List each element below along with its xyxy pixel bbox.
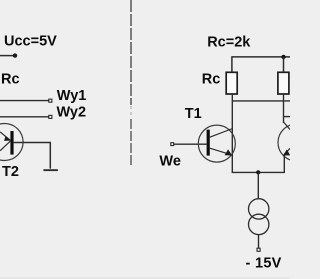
transistor T2 (PNP, mirrored, cut off at left edge) (0, 124, 23, 161)
node Ucc (filled dot) (13, 53, 17, 57)
node -15V terminal (257, 248, 260, 251)
wire T1 collector vertical (resistor bottom to emitter rail) (231, 94, 233, 172)
scan edge shading bottom (0, 277, 290, 279)
wire We to T1 base (174, 143, 207, 145)
wire right collector to Wy2 (284, 116, 291, 118)
svg-text:Wy1: Wy1 (57, 88, 87, 104)
current source I (two overlapping circles) (249, 199, 269, 235)
transistor T1 (NPN) (198, 125, 235, 162)
svg-text:T2: T2 (2, 164, 19, 180)
wire current source to -15V terminal (258, 235, 260, 249)
resistor Rc left (226, 72, 237, 94)
wire right resistor top lead (283, 57, 285, 72)
node Wy1 terminal (49, 99, 52, 102)
wire collector rail to Wy1 (232, 100, 290, 102)
svg-text:We: We (159, 153, 181, 169)
wire right collector vertical (283, 94, 285, 123)
svg-text:Rc: Rc (1, 72, 20, 88)
resistor Rc right (278, 72, 289, 94)
wire Wy1 (0, 100, 49, 102)
wire right emitter vertical (283, 156, 285, 173)
node We terminal (171, 143, 174, 146)
wire emitter rail (232, 171, 285, 173)
node top rail junction (dot) (281, 55, 285, 59)
ground (43, 169, 58, 171)
node Wy2 terminal (49, 115, 52, 118)
transistor T2-right (cut off at right edge) (278, 122, 315, 161)
wire top supply rail (232, 56, 290, 58)
svg-text:Rc=2k: Rc=2k (207, 35, 251, 51)
svg-text:Ucc=5V: Ucc=5V (4, 33, 57, 49)
svg-text:Rc: Rc (202, 72, 221, 88)
divider dashed fold line (130, 0, 132, 167)
svg-text:T1: T1 (185, 106, 202, 122)
svg-text:Wy2: Wy2 (57, 105, 87, 121)
wire T2 base to ground (14, 143, 51, 169)
wire Wy2 (0, 116, 49, 118)
wire left resistor top lead (231, 56, 233, 72)
wire Ucc supply stub (0, 55, 15, 57)
wire junction to current source (257, 172, 259, 199)
node emitter junction (dot) (256, 170, 260, 174)
svg-text:- 15V: - 15V (246, 256, 282, 272)
